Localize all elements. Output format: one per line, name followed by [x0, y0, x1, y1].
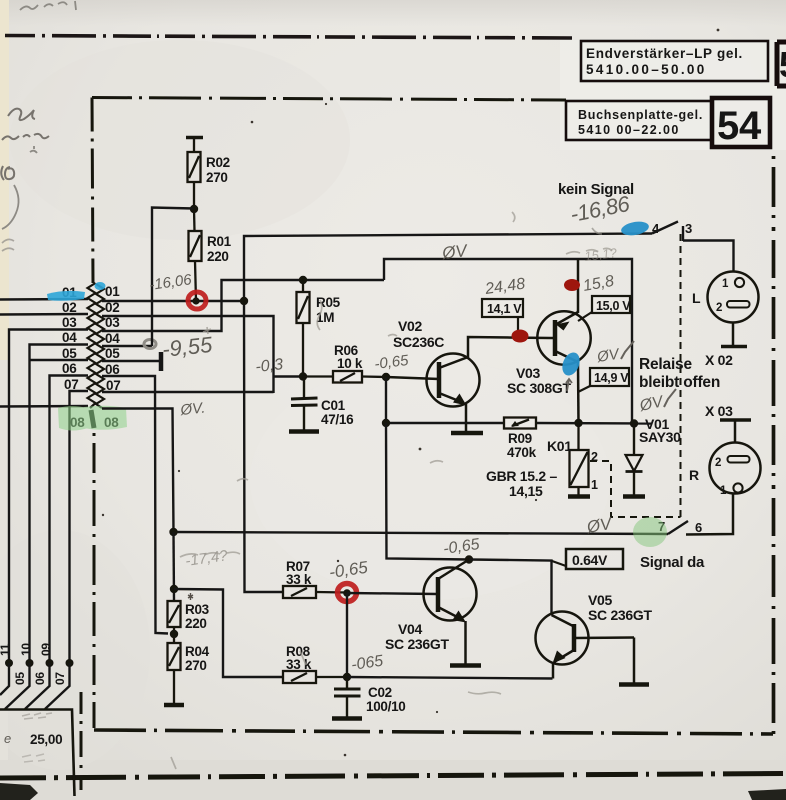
junction R02/R01 [190, 205, 198, 213]
svg-text:K01: K01 [547, 438, 572, 454]
transistor V03 (PNP) [537, 259, 590, 423]
svg-text:1: 1 [722, 278, 729, 290]
title box Buchsenplatte [566, 101, 712, 140]
svg-text:14,9 V: 14,9 V [594, 371, 629, 385]
svg-text:07: 07 [53, 672, 67, 685]
number box 54 [712, 98, 770, 147]
svg-text:54: 54 [717, 104, 762, 148]
svg-text:06: 06 [33, 672, 47, 685]
green highlight near 7 [633, 517, 667, 547]
svg-text:X 03: X 03 [705, 403, 733, 419]
red ring annotation on node [188, 292, 206, 309]
junction V02 base [382, 373, 390, 381]
junction V03 collector / K01 [574, 419, 582, 427]
svg-text:15,0 V: 15,0 V [596, 299, 631, 313]
svg-text:03: 03 [62, 315, 77, 330]
svg-text:R02: R02 [206, 155, 230, 170]
connector X03 [686, 420, 761, 535]
svg-text:Relaise: Relaise [639, 356, 692, 373]
wire pin08 left [0, 405, 88, 408]
V03 emitter arrow (pnp, pointing into bar) [556, 322, 570, 331]
connector X02 [708, 272, 759, 347]
svg-text:1: 1 [720, 485, 727, 497]
R09 rail [386, 377, 652, 424]
wire node 01 riser to switch feed [244, 234, 652, 302]
rotated wire number labels 11 10 09 [0, 643, 53, 656]
svg-text:220: 220 [207, 249, 229, 264]
svg-text:C01: C01 [321, 398, 346, 413]
svg-text:ØV.: ØV. [179, 399, 206, 419]
svg-text:6: 6 [695, 520, 702, 535]
svg-text:R01: R01 [207, 234, 232, 249]
emitter row to V05 [347, 677, 553, 679]
svg-text:SAY30: SAY30 [639, 429, 681, 445]
svg-text:ØV: ØV [440, 241, 469, 263]
pencil word du [8, 109, 35, 120]
ground V04 emitter [450, 663, 481, 668]
svg-text:04: 04 [105, 331, 120, 346]
pencil (6 mark [1, 166, 14, 180]
sheet border B left edge upper (dash-dot) [92, 98, 93, 284]
relay coil K01 [570, 423, 589, 495]
svg-text:SC 308GT: SC 308GT [507, 380, 571, 396]
bottom-right corner dark mark [748, 789, 786, 800]
resistor R02 [188, 138, 201, 210]
wire pin02 left [0, 313, 88, 316]
svg-text:L: L [692, 290, 701, 306]
lead from 14,9V box [578, 386, 590, 392]
transistor V04 [424, 560, 477, 665]
measured box 15,0V [592, 296, 630, 313]
svg-text:4: 4 [652, 221, 660, 236]
link to V05 base corner [469, 560, 552, 616]
junction R08/C02 [343, 673, 351, 681]
ground V01 [623, 494, 645, 499]
V05 emitter arrow [553, 651, 566, 664]
bottom junction dots on connector drops [5, 659, 74, 667]
wire node 01 drop to R07 [244, 301, 283, 592]
cyan dot right 01 [95, 282, 106, 290]
resistor R01 [189, 209, 202, 301]
wire pin07 right + riser join [102, 391, 274, 393]
supply stub terminal above R02 [186, 136, 203, 139]
resistor R03 [168, 601, 181, 643]
svg-text:05: 05 [62, 346, 77, 361]
svg-text:270: 270 [185, 658, 207, 673]
capacitor C01 [291, 377, 318, 430]
svg-text:X 02: X 02 [705, 352, 733, 368]
junction R03 top branch to R08 [170, 585, 178, 593]
switch contact 4-3 top [652, 222, 734, 272]
junction V01 anode [630, 419, 638, 427]
junction R09 rail left [382, 419, 390, 427]
svg-text:R: R [689, 467, 699, 483]
svg-text:R05: R05 [316, 295, 341, 310]
svg-text:0.64V: 0.64V [572, 552, 608, 568]
svg-text:SC236C: SC236C [393, 334, 444, 350]
red paint dot on V03 base [512, 330, 529, 343]
wire pin05 right with T stub [102, 352, 161, 371]
top-left pencil scribbles [20, 1, 76, 10]
V04 collector link from x386 [386, 423, 469, 560]
V02 emitter arrow [453, 394, 467, 406]
junction R05 bottom [299, 372, 307, 380]
svg-text:01: 01 [105, 284, 120, 299]
resistor R06 [303, 371, 386, 383]
corner table box 25,00 [0, 710, 75, 797]
wire pin03 left + drop [9, 330, 88, 664]
svg-text:09: 09 [39, 643, 53, 656]
wire pin07 left + drop [70, 391, 89, 663]
lead from 15,0V box [578, 312, 592, 321]
svg-text:03: 03 [105, 315, 120, 330]
resistor R04 [168, 643, 181, 704]
ground V05 collector load [619, 682, 649, 687]
paper specks [102, 29, 720, 757]
diagonal drops into corner box [0, 663, 70, 709]
measured box 14,1V [482, 299, 523, 317]
faint pencil squiggles scattered [171, 212, 612, 769]
connector pin labels right column [104, 284, 120, 430]
title box Endverstaerker [581, 41, 768, 81]
ground K01 [568, 494, 590, 499]
svg-text:1: 1 [591, 478, 598, 492]
svg-text:11: 11 [0, 643, 12, 656]
mute rail to switch 7 [174, 532, 669, 534]
short dash-dot stub bottom-left [80, 692, 83, 790]
sheet border B left edge lower (dash-dot) [93, 433, 96, 730]
svg-text:5: 5 [779, 44, 786, 85]
svg-text:C02: C02 [368, 685, 392, 700]
wire pin03 right + riser to 0V [102, 280, 384, 331]
svg-text:14,15: 14,15 [509, 483, 543, 499]
svg-text:e: e [4, 731, 11, 746]
svg-text:270: 270 [206, 170, 228, 185]
blue paint blob on V03 collector [559, 350, 583, 378]
ground C02 [332, 716, 362, 721]
svg-text:07: 07 [64, 377, 78, 392]
pencil squiggles mid-left [2, 239, 14, 251]
resistor R07 [283, 586, 347, 598]
svg-text:47/16: 47/16 [321, 412, 354, 427]
svg-text:R03: R03 [185, 602, 210, 617]
svg-text:Endverstärker–LP gel.: Endverstärker–LP gel. [586, 46, 742, 61]
svg-text:02: 02 [105, 300, 119, 315]
svg-text:10: 10 [19, 643, 33, 656]
sheet border B right edge (dash-dot) [772, 150, 776, 734]
ground C01 [289, 429, 319, 434]
junction R03/R04 mid [170, 630, 178, 638]
connector pin labels left column [62, 285, 85, 430]
switch lever 7-6 [668, 521, 688, 534]
ground R04 [164, 703, 184, 708]
green highlight over 08 labels [58, 406, 127, 431]
junction node 01 [240, 297, 248, 305]
junction R05 top [299, 276, 307, 284]
wire stair to R05 bottom node [274, 375, 304, 377]
svg-text:06: 06 [62, 361, 77, 376]
drop to R08 row [346, 593, 348, 677]
0V rail top [384, 259, 632, 423]
junction pin01/R01 node [192, 297, 199, 304]
cyan marker streak over left 01 label [47, 291, 85, 301]
pencil circlet on pin04 node [144, 340, 156, 349]
svg-text:SC 236GT: SC 236GT [588, 607, 652, 623]
transistor V05 [536, 612, 635, 684]
svg-text:14,1 V: 14,1 V [487, 302, 522, 316]
svg-text:-0,3: -0,3 [255, 356, 284, 376]
svg-text:33 k: 33 k [286, 572, 312, 587]
wire pin06 left + drop [50, 376, 89, 664]
svg-text:2: 2 [715, 457, 721, 469]
svg-text:2: 2 [716, 302, 722, 314]
stub from 14,1V box [517, 317, 519, 337]
V04 emitter arrow [453, 611, 467, 623]
svg-text:V04: V04 [398, 621, 423, 637]
faint pencil over -16,86 area tail [592, 228, 602, 234]
tiny asterisk near R03 [188, 593, 193, 600]
capacitor C02 [334, 677, 361, 717]
blue paint blob near 4 [620, 220, 650, 238]
resistor R08 [283, 671, 347, 683]
resistor R05 [297, 280, 310, 376]
svg-text:-9,55: -9,55 [161, 332, 214, 362]
svg-text:220: 220 [185, 616, 207, 631]
wire pin04 left + drop [30, 345, 89, 664]
lead from 0.64V box [552, 561, 566, 566]
pencil curve [2, 146, 37, 229]
bottom-left corner dark blob [0, 783, 38, 800]
wire pin01 right to node [102, 300, 244, 302]
svg-text:R09: R09 [508, 431, 532, 446]
svg-text:33 k: 33 k [286, 657, 312, 672]
pencil arrow after GT [566, 379, 572, 391]
svg-text:SC 236GT: SC 236GT [385, 636, 449, 652]
svg-text:V02: V02 [398, 318, 423, 334]
svg-text:05: 05 [105, 346, 120, 361]
measured box 0.64V [566, 549, 623, 569]
red paint dot top of V03 emitter [564, 279, 580, 291]
wire pin06 right + drop to R03/R04 mid [102, 376, 168, 634]
svg-text:100/10: 100/10 [366, 699, 406, 714]
wire pin04 right to R01 node drop [102, 345, 152, 347]
svg-text:05: 05 [13, 672, 27, 685]
wire pin01 left [0, 298, 88, 301]
outer sheet bottom border (dash-dot) [0, 774, 786, 779]
svg-text:06: 06 [105, 362, 120, 377]
wire branch to pin04 drop [152, 208, 194, 347]
V04 base wire [347, 593, 437, 594]
svg-text:V03: V03 [516, 365, 541, 381]
svg-text:Signal da: Signal da [640, 554, 705, 571]
svg-text:GBR 15.2 –: GBR 15.2 – [486, 468, 557, 484]
outer sheet top border (dash-dot) [5, 36, 572, 39]
divider chain verticals R03/R04 [172, 532, 175, 601]
sheet border B bottom edge (dash-dot) [94, 730, 773, 734]
svg-text:10 k: 10 k [337, 356, 363, 371]
svg-text:3: 3 [685, 221, 692, 236]
junction dot mute rail / divider chain [169, 528, 177, 536]
partial box 5 at right edge [777, 42, 786, 86]
svg-text:R04: R04 [185, 644, 210, 659]
wire pin02 right + stair down [102, 316, 274, 393]
svg-text:Buchsenplatte-gel.: Buchsenplatte-gel. [578, 108, 702, 122]
wire pin08 right + drop to divider chain [102, 409, 174, 533]
branch to R08 jog [174, 589, 283, 677]
resistor R09 with arrow [504, 418, 536, 429]
wire pin05 left [30, 359, 89, 361]
svg-text:25,00: 25,00 [30, 732, 62, 747]
junction V04 collector [465, 555, 473, 563]
svg-text:07: 07 [106, 378, 120, 393]
svg-text:470k: 470k [507, 445, 537, 460]
relay mechanical link (dashed) [590, 230, 681, 517]
pencil word ein [2, 134, 49, 140]
measured box 14,9V [590, 368, 629, 386]
svg-text:04: 04 [62, 330, 77, 345]
junction V04 base node with red ring [343, 589, 351, 597]
faint pencil figures above 25,00 [22, 713, 52, 719]
svg-text:V05: V05 [588, 592, 613, 608]
rotated wire number labels 05 06 07 [13, 672, 67, 685]
sheet border B top edge (dash-dot) [92, 98, 566, 101]
diode V01 SAY30 [626, 424, 643, 496]
svg-text:bleibt offen: bleibt offen [639, 374, 720, 391]
svg-text:02: 02 [62, 300, 76, 315]
ground V02 emitter [451, 431, 483, 436]
transistor V02 [386, 337, 550, 431]
connector edge zigzag (double sawtooth) [88, 283, 105, 428]
